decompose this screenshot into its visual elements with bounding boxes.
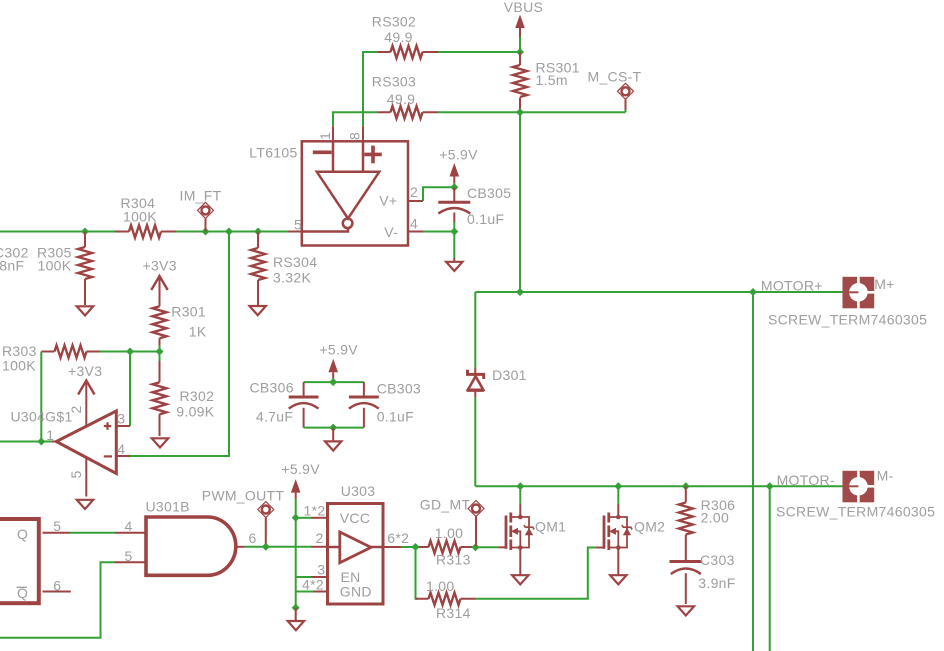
wire QM2 drain <box>617 486 619 515</box>
wire pin3 riser <box>129 352 131 427</box>
svg-text:100K: 100K <box>2 358 36 374</box>
wire bypass top rail <box>304 378 364 382</box>
power +5.9V at LT6105 <box>439 147 478 184</box>
pin 5 stub LT6105 <box>288 216 302 232</box>
svg-text:U303: U303 <box>341 483 376 499</box>
wire Q to gate pin 4 <box>70 532 115 534</box>
resistor R313 1.00 <box>419 525 476 568</box>
resistor RS301 <box>513 52 580 112</box>
svg-text:9.09K: 9.09K <box>176 404 214 420</box>
wire feedback node down to U304 pin 4 <box>130 232 229 457</box>
wire bypass bottom rail <box>304 427 364 429</box>
label PWM_OUTT <box>202 487 285 547</box>
pin 4 stub U304 <box>116 441 130 457</box>
resistor R302 9.09K <box>153 352 215 437</box>
wire QM2 gate stub <box>596 547 604 549</box>
resistor R314 1.00 <box>416 578 476 621</box>
svg-text:5: 5 <box>68 470 84 478</box>
svg-text:8: 8 <box>347 132 363 140</box>
svg-text:1: 1 <box>46 427 54 443</box>
svg-text:2.00: 2.00 <box>701 510 729 526</box>
junction node RS304 <box>254 228 262 236</box>
svg-text:U304G$1: U304G$1 <box>11 409 73 425</box>
wire QM1 drain <box>519 486 521 515</box>
svg-text:QM1: QM1 <box>535 518 566 534</box>
pin 8 stub LT6105 <box>347 126 364 141</box>
wire R303 left down to U304 output <box>40 352 42 442</box>
ground below CB305 <box>446 258 462 271</box>
junction node divider mid <box>156 348 164 356</box>
junction node QM1 drain <box>516 482 524 490</box>
capacitor C302 (off-sheet label) <box>0 245 29 274</box>
wire QM2 source to ground <box>617 550 619 575</box>
svg-text:5: 5 <box>125 548 133 564</box>
capacitor C303 3.9nF <box>670 552 736 604</box>
wire D301 branch down <box>474 292 476 367</box>
junction node R303 right <box>126 348 134 356</box>
pin 1 stub LT6105 <box>317 126 333 141</box>
wire RS302 left to LT6105 pin 8 <box>363 52 378 126</box>
resistor R304 100K <box>115 195 176 238</box>
pin 5 stub U304 to ground <box>68 458 86 497</box>
junction node PWM_OUTT <box>262 543 270 551</box>
wire U303 output <box>401 546 419 548</box>
svg-text:4: 4 <box>410 216 418 232</box>
label M_CS-T <box>588 68 642 110</box>
wire QM1 gate stub <box>498 546 506 548</box>
screw terminal M+ SCREW_TERM7460305 <box>768 276 927 328</box>
junction node U304 feedback <box>225 228 233 236</box>
svg-text:R314: R314 <box>436 605 471 621</box>
junction node output/R303 <box>37 438 45 446</box>
power +3V3 above R301 <box>143 258 177 307</box>
pin 3 stub U304 <box>116 411 130 427</box>
svg-text:1: 1 <box>317 132 333 140</box>
svg-text:2: 2 <box>410 184 418 200</box>
wire gate output to U303 <box>245 546 311 548</box>
power +5.9V at U303 <box>281 461 320 498</box>
svg-text:5: 5 <box>53 518 61 534</box>
junction node IM_FT <box>202 228 210 236</box>
junction node RS301 bottom / RS303 <box>516 108 524 116</box>
wire pin4 to ground node <box>423 222 454 258</box>
pin 4 stub gate <box>115 518 146 534</box>
resistor R303 100K <box>2 343 100 374</box>
svg-text:0.1uF: 0.1uF <box>467 211 504 227</box>
ground below RS304 <box>250 306 266 315</box>
pin 6*2 stub U303 output <box>385 530 410 547</box>
svg-text:IM_FT: IM_FT <box>180 188 222 204</box>
pin 5 stub gate <box>115 548 147 564</box>
power VBUS <box>504 0 543 37</box>
svg-text:M+: M+ <box>874 276 894 292</box>
junction node MOTOR- branch <box>766 482 774 490</box>
wire sense node down to MOTOR+ rail <box>519 112 521 292</box>
pin 3 stub U303 <box>311 562 326 578</box>
svg-text:+5.9V: +5.9V <box>439 147 478 163</box>
svg-text:6: 6 <box>249 530 257 546</box>
pin 6 stub flip-flop Qbar <box>43 577 71 593</box>
junction node QM2 drain <box>614 482 622 490</box>
capacitor CB303 0.1uF <box>349 381 421 428</box>
svg-text:1.00: 1.00 <box>426 578 454 594</box>
junction node MOTOR+ branch <box>749 288 757 296</box>
junction node RS302/RS301 <box>516 48 524 56</box>
pin 6 stub gate output <box>236 530 257 547</box>
ground below QM2 <box>610 575 626 584</box>
svg-text:R313: R313 <box>436 552 471 568</box>
wire RS303 left to LT6105 pin 1 <box>333 112 378 126</box>
svg-text:V-: V- <box>384 224 398 240</box>
ground below bypass caps <box>325 428 341 451</box>
power +3V3 at U304 pin 2 <box>68 363 102 426</box>
wire MOTOR- rail <box>475 485 844 487</box>
svg-text:RS304: RS304 <box>273 254 317 270</box>
wire MOTOR- branch down <box>769 486 771 651</box>
junction node bypass bottom <box>329 424 337 432</box>
svg-text:V+: V+ <box>379 193 397 209</box>
svg-text:PWM_OUTT: PWM_OUTT <box>202 487 285 503</box>
svg-text:QM2: QM2 <box>634 518 665 534</box>
ground below QM1 <box>512 575 528 584</box>
svg-text:4: 4 <box>117 441 125 457</box>
svg-text:1.00: 1.00 <box>435 525 463 541</box>
svg-text:CB303: CB303 <box>377 381 421 397</box>
svg-text:D301: D301 <box>492 367 527 383</box>
wire gate pin5 from lower left <box>0 562 115 638</box>
capacitor CB306 4.7uF <box>250 380 319 428</box>
svg-text:SCREW_TERM7460305: SCREW_TERM7460305 <box>768 312 927 328</box>
junction node gate drive <box>412 543 420 551</box>
junction node R306 top <box>682 482 690 490</box>
svg-text:R301: R301 <box>171 303 206 319</box>
wire +5.9V to pin2 and CB305 <box>423 183 454 201</box>
transistor QM1 (N-MOSFET) <box>506 513 534 551</box>
svg-text:3.9nF: 3.9nF <box>698 575 735 591</box>
capacitor CB305 0.1uF <box>438 185 511 227</box>
ground below C303 <box>678 606 694 615</box>
pin 2 stub LT6105 <box>408 184 423 201</box>
junction node pin4/CB305 <box>450 228 458 236</box>
svg-text:100K: 100K <box>38 258 72 274</box>
wire divider row <box>100 351 160 353</box>
ground below R305 <box>77 306 93 315</box>
pin 1*2 stub U303 <box>304 503 327 519</box>
svg-text:3: 3 <box>317 562 325 578</box>
junction node R305 <box>81 228 89 236</box>
svg-text:5: 5 <box>294 216 302 232</box>
wire R301 to divider node <box>159 346 161 352</box>
label GD_MT <box>420 497 484 548</box>
svg-text:100K: 100K <box>123 208 157 224</box>
svg-text:6: 6 <box>53 577 61 593</box>
svg-text:U301B: U301B <box>146 499 190 515</box>
resistor R305 100K <box>37 232 92 306</box>
svg-text:6*2: 6*2 <box>387 530 409 546</box>
op-amp U304G$1 <box>11 409 117 474</box>
wire MOTOR+ rail <box>475 291 844 293</box>
ground below U304 <box>77 500 93 509</box>
resistor R306 2.00 <box>679 486 735 560</box>
and-gate U301B <box>146 499 236 576</box>
wire D301 to MOTOR- rail <box>474 398 476 487</box>
junction node VCC pin <box>292 514 300 522</box>
svg-text:CB305: CB305 <box>467 185 511 201</box>
wire +5.9V down to VCC/EN/GND column <box>296 498 314 608</box>
svg-text:CB306: CB306 <box>250 380 294 396</box>
svg-text:+3V3: +3V3 <box>68 363 102 379</box>
svg-text:VBUS: VBUS <box>504 0 543 15</box>
svg-text:3: 3 <box>117 411 125 427</box>
wire RS303 right to M_CS-T <box>438 109 626 112</box>
wire VBUS to RS302 node <box>519 37 521 52</box>
svg-text:LT6105: LT6105 <box>249 145 297 161</box>
svg-text:6.8nF: 6.8nF <box>0 258 24 274</box>
svg-text:1.5m: 1.5m <box>536 72 568 88</box>
svg-text:49.9: 49.9 <box>387 91 415 107</box>
svg-text:C303: C303 <box>700 552 735 568</box>
svg-text:VCC: VCC <box>340 510 370 526</box>
screw terminal M- SCREW_TERM7460305 <box>776 468 935 520</box>
resistor RS302 <box>372 13 438 58</box>
wire gate drive down to R314 <box>416 547 419 599</box>
diode D301 (zener) <box>467 367 527 398</box>
svg-text:0.1uF: 0.1uF <box>377 408 414 424</box>
svg-text:MOTOR-: MOTOR- <box>777 472 835 488</box>
junction node MOTOR+/sense <box>516 288 524 296</box>
ground below U303 <box>288 608 304 630</box>
wire R313 to QM1 gate <box>476 546 499 548</box>
wire sense row (pin 5 net) <box>0 231 288 233</box>
resistor RS304 3.32K <box>251 232 317 306</box>
svg-text:GND: GND <box>340 584 372 600</box>
pin 4 stub LT6105 <box>408 216 423 232</box>
pin 4*2 stub U303 <box>302 577 326 593</box>
svg-text:1K: 1K <box>189 323 207 339</box>
svg-text:SCREW_TERM7460305: SCREW_TERM7460305 <box>776 504 935 520</box>
transistor QM2 (N-MOSFET) <box>604 513 632 551</box>
flip-flop U301A box (partial) <box>0 519 39 603</box>
junction node bypass top <box>329 378 337 386</box>
svg-text:+5.9V: +5.9V <box>319 342 358 358</box>
resistor RS303 <box>372 73 438 118</box>
power +5.9V at CB306/CB303 <box>319 342 358 379</box>
resistor R301 1K <box>153 303 207 345</box>
svg-text:4*2: 4*2 <box>302 577 324 593</box>
svg-text:M_CS-T: M_CS-T <box>588 68 642 84</box>
ground below R302 <box>152 438 168 447</box>
pin 5 stub flip-flop Q <box>43 518 71 534</box>
label IM_FT <box>180 188 222 232</box>
wire U304 output row <box>0 441 52 443</box>
svg-text:49.9: 49.9 <box>384 29 412 45</box>
junction node R313/GD_MT <box>472 543 480 551</box>
wire MOTOR+ branch down right side <box>752 292 754 651</box>
svg-text:1*2: 1*2 <box>304 503 326 519</box>
wire QM1 source to ground <box>519 550 521 575</box>
svg-text:MOTOR+: MOTOR+ <box>761 278 823 294</box>
svg-text:3.32K: 3.32K <box>273 270 311 286</box>
junction node GND column bottom <box>292 604 300 612</box>
junction node CB305 top <box>450 183 458 191</box>
pin 1 stub U304 output <box>46 427 56 443</box>
wire U304 pin4 to feedback <box>130 455 229 457</box>
svg-text:Q: Q <box>17 526 28 542</box>
svg-text:RS303: RS303 <box>372 73 416 89</box>
svg-text:+5.9V: +5.9V <box>281 461 320 477</box>
svg-text:+3V3: +3V3 <box>143 258 177 274</box>
wire RS302 right to VBUS node <box>438 51 520 53</box>
svg-text:RS302: RS302 <box>372 13 416 29</box>
svg-text:2: 2 <box>316 530 324 546</box>
op-amp U1 LT6105 <box>249 141 408 245</box>
svg-text:GD_MT: GD_MT <box>420 497 471 513</box>
gate driver U303 <box>326 483 385 604</box>
svg-text:M-: M- <box>877 468 894 484</box>
svg-text:R302: R302 <box>180 388 215 404</box>
pin 2 stub U303 <box>311 530 326 547</box>
wire R314 to QM2 gate <box>476 548 597 599</box>
svg-text:4.7uF: 4.7uF <box>256 408 293 424</box>
svg-text:4: 4 <box>125 518 133 534</box>
wire VCC pin to column <box>296 517 311 519</box>
